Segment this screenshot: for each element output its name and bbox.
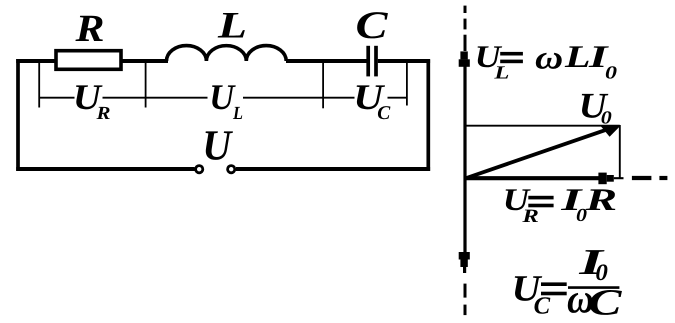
- wire: bottom right segment: [236, 167, 430, 171]
- fraction numerator I0: [578, 241, 608, 286]
- terminal circle right: [228, 166, 235, 173]
- svg-text:U: U: [202, 122, 233, 169]
- wire: top-left horizontal segment: [16, 59, 56, 63]
- wire: resistor to inductor: [123, 59, 169, 63]
- resistor R: [56, 51, 121, 70]
- svg-text:C: C: [534, 293, 551, 320]
- label U_C: [353, 77, 391, 124]
- phasor U_R vector horizontal arrow (stepped head): [464, 173, 624, 185]
- wire: inductor to capacitor: [286, 59, 367, 63]
- bracket drop line between R and L: [145, 62, 147, 108]
- svg-text:C: C: [356, 4, 389, 47]
- svg-text:R: R: [74, 8, 104, 50]
- svg-text:C: C: [588, 283, 623, 323]
- svg-text:0: 0: [605, 63, 617, 83]
- svg-text:0: 0: [601, 109, 612, 129]
- phasor axis: dashed top extension: [464, 6, 467, 51]
- svg-text:L: L: [232, 104, 243, 124]
- label U_R: [73, 77, 111, 124]
- wire: left vertical side: [16, 59, 20, 171]
- wire: right vertical side: [426, 59, 430, 170]
- svg-text:L: L: [493, 63, 509, 83]
- svg-text:R: R: [95, 104, 110, 124]
- bracket line U_R span: [39, 97, 207, 99]
- svg-text:ω: ω: [535, 39, 563, 76]
- svg-text:R: R: [521, 206, 539, 227]
- phasor axis: dashed bottom extension: [464, 284, 467, 316]
- bracket drop line right of C: [406, 62, 408, 106]
- label U0: [579, 85, 612, 128]
- fraction denominator omega C: [567, 277, 623, 323]
- phasor U0 vector diagonal arrow: [465, 126, 620, 178]
- label U_C = I0 / omega C: [512, 269, 567, 320]
- svg-text:C: C: [377, 103, 391, 124]
- fraction bar: [568, 286, 619, 289]
- label U_L: [209, 77, 243, 124]
- capacitor C: [368, 46, 376, 77]
- svg-text:R: R: [584, 182, 617, 217]
- phasor U_L vector up arrowhead (stepped): [459, 51, 470, 66]
- label U_L = omega L I0: [475, 39, 617, 83]
- bracket drop line left of R: [38, 62, 40, 108]
- bracket drop line between L and C: [322, 62, 324, 108]
- phasor U_C vector down arrowhead (stepped): [459, 252, 470, 273]
- terminal circle left: [196, 166, 203, 173]
- svg-text:L: L: [217, 6, 247, 47]
- phasor vertical axis solid line: [463, 60, 466, 253]
- label U_R = I0 R: [503, 182, 617, 227]
- inductor L: [167, 46, 287, 61]
- svg-text:L: L: [564, 39, 591, 74]
- wire: capacitor to top-right corner: [378, 59, 430, 63]
- bracket line U_L / U_C span: [243, 97, 407, 99]
- projection line: vertical thin: [619, 125, 621, 178]
- wire: bottom left segment: [16, 167, 194, 171]
- projection line: horizontal thin: [464, 125, 620, 127]
- phasor axis: dashed right extension: [632, 176, 668, 180]
